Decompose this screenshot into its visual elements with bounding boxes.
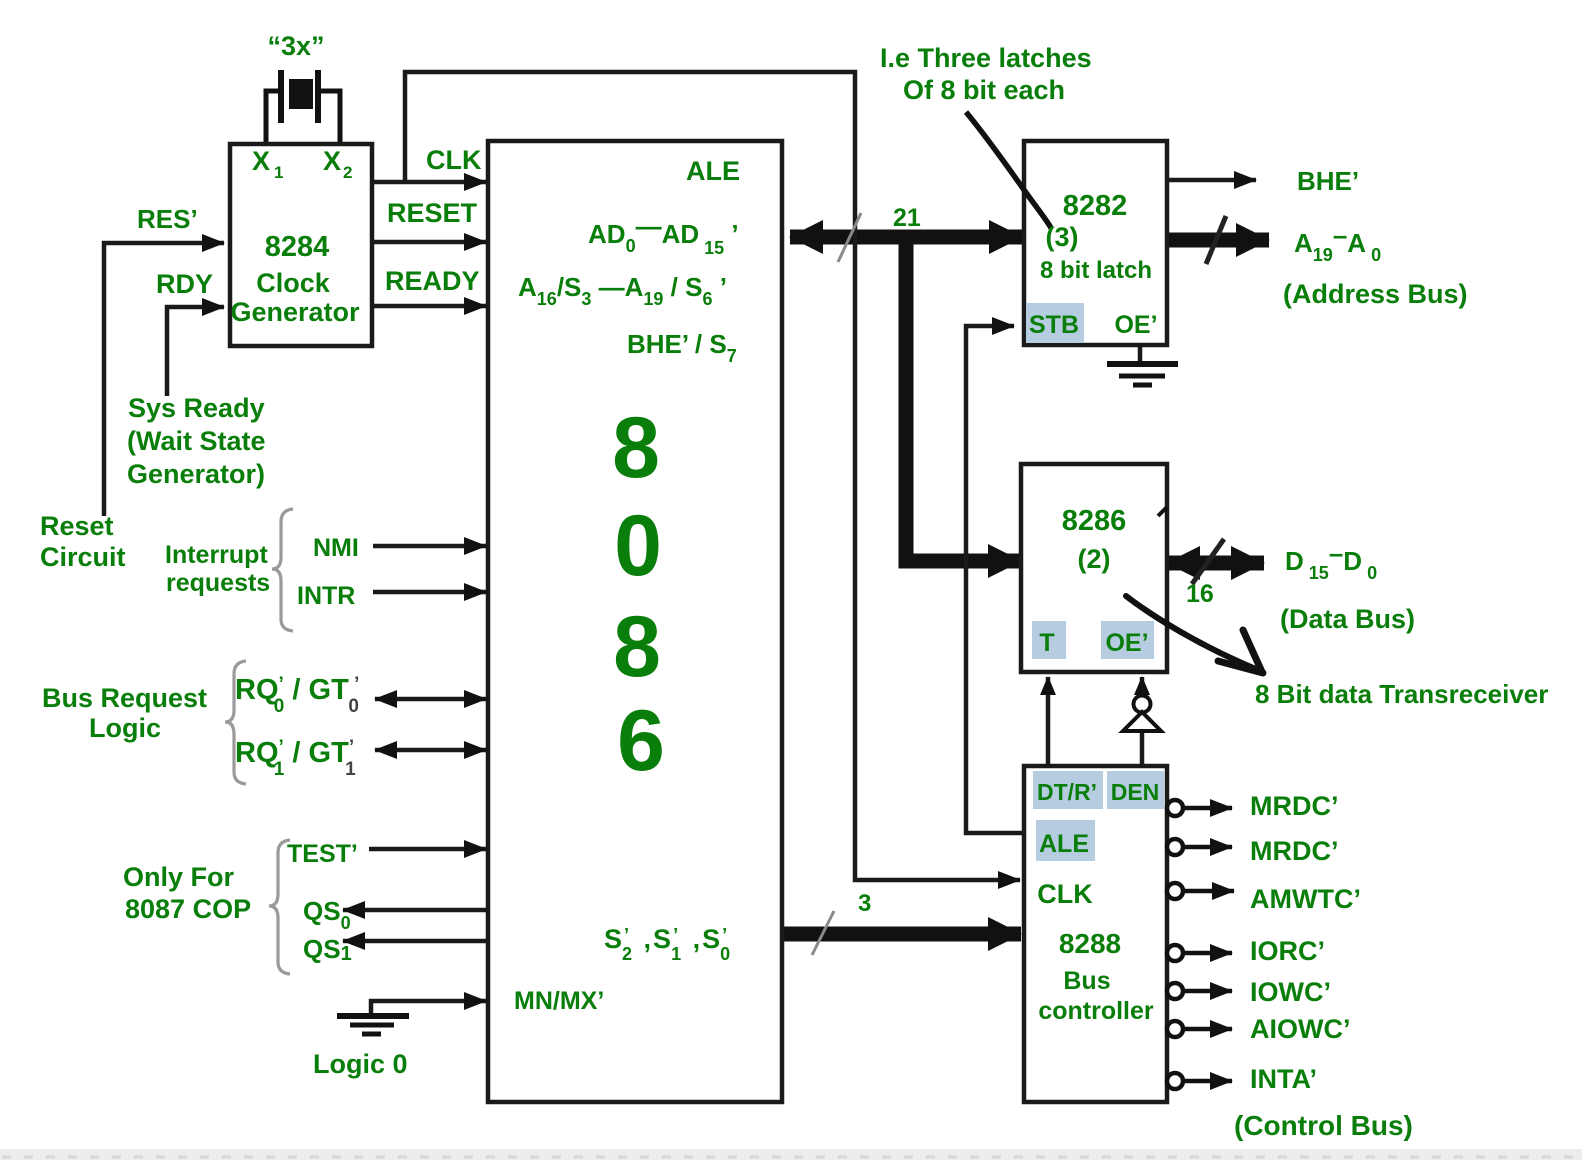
svg-text:3: 3 (858, 890, 871, 917)
svg-text:Clock: Clock (256, 268, 331, 298)
svg-text:8282: 8282 (1063, 190, 1128, 222)
svg-text:RQ’1 / GT’1: RQ’1 / GT’1 (235, 737, 356, 780)
svg-text:Of 8 bit each: Of 8 bit each (903, 75, 1065, 105)
svg-text:requests: requests (166, 569, 270, 597)
svg-text:CLK: CLK (1037, 879, 1093, 909)
svg-text:ALE: ALE (1039, 830, 1089, 858)
svg-text:X: X (252, 146, 270, 176)
svg-text:A19–A 0: A19–A 0 (1294, 220, 1381, 265)
svg-text:RES’: RES’ (137, 204, 198, 234)
svg-text:OE’: OE’ (1105, 629, 1148, 657)
svg-text:T: T (1039, 629, 1054, 657)
svg-text:DEN: DEN (1111, 779, 1160, 805)
svg-text:Sys Ready: Sys Ready (128, 393, 265, 423)
svg-text:RQ’0 / GT ’0: RQ’0 / GT ’0 (235, 674, 359, 717)
svg-text:MN/MX’: MN/MX’ (514, 987, 604, 1015)
svg-text:STB: STB (1029, 311, 1079, 339)
svg-text:(Data Bus): (Data Bus) (1280, 604, 1415, 634)
svg-text:6: 6 (617, 693, 665, 789)
svg-text:Logic 0: Logic 0 (313, 1049, 408, 1079)
svg-text:DT/R’: DT/R’ (1037, 779, 1097, 805)
svg-text:8087 COP: 8087 COP (125, 894, 251, 924)
svg-text:RDY: RDY (156, 269, 213, 299)
svg-text:AMWTC’: AMWTC’ (1250, 884, 1361, 914)
svg-text:8: 8 (612, 400, 660, 496)
svg-text:Only For: Only For (123, 862, 234, 892)
svg-text:Generator): Generator) (127, 459, 265, 489)
svg-text:“3x”: “3x” (267, 31, 324, 61)
svg-text:D 15–D 0: D 15–D 0 (1285, 538, 1377, 583)
svg-text:TEST’: TEST’ (287, 840, 358, 868)
svg-text:0: 0 (614, 498, 662, 594)
svg-text:16: 16 (1186, 580, 1214, 608)
svg-text:ALE: ALE (686, 156, 740, 186)
svg-text:INTA’: INTA’ (1250, 1064, 1317, 1094)
svg-text:Bus Request: Bus Request (42, 683, 207, 713)
svg-text:MRDC’: MRDC’ (1250, 791, 1339, 821)
svg-text:(Wait State: (Wait State (127, 426, 266, 456)
svg-text:(2): (2) (1078, 544, 1111, 574)
svg-text:(Address Bus): (Address Bus) (1283, 279, 1468, 309)
svg-text:(Control Bus): (Control Bus) (1234, 1110, 1413, 1141)
svg-text:8: 8 (613, 599, 661, 695)
svg-text:MRDC’: MRDC’ (1250, 836, 1339, 866)
svg-text:Interrupt: Interrupt (165, 541, 268, 569)
svg-text:Logic: Logic (89, 713, 161, 743)
svg-text:X: X (323, 146, 341, 176)
svg-text:Bus: Bus (1063, 967, 1110, 995)
svg-text:AIOWC’: AIOWC’ (1250, 1014, 1351, 1044)
svg-text:INTR: INTR (297, 582, 355, 610)
svg-text:Circuit: Circuit (40, 542, 126, 572)
svg-text:(3): (3) (1046, 222, 1079, 252)
svg-text:OE’: OE’ (1114, 311, 1157, 339)
svg-text:NMI: NMI (313, 534, 359, 562)
svg-text:8284: 8284 (265, 231, 330, 263)
svg-text:RESET: RESET (387, 198, 478, 228)
svg-text:8 bit latch: 8 bit latch (1040, 257, 1152, 284)
svg-text:8288: 8288 (1059, 928, 1121, 959)
svg-text:QS1: QS1 (303, 934, 352, 965)
svg-text:8 Bit data Transreceiver: 8 Bit data Transreceiver (1255, 679, 1548, 709)
svg-text:READY: READY (385, 266, 480, 296)
svg-text:BHE’: BHE’ (1297, 166, 1359, 196)
svg-text:IOWC’: IOWC’ (1250, 977, 1331, 1007)
svg-text:8286: 8286 (1062, 505, 1127, 537)
svg-text:controller: controller (1038, 997, 1154, 1025)
svg-text:IORC’: IORC’ (1250, 936, 1325, 966)
svg-text:2: 2 (343, 163, 352, 182)
svg-text:QS0: QS0 (303, 896, 351, 933)
svg-text:CLK: CLK (426, 145, 482, 175)
svg-text:I.e Three latches: I.e Three latches (880, 43, 1092, 73)
svg-text:Generator: Generator (230, 297, 360, 327)
svg-text:Reset: Reset (40, 511, 114, 541)
svg-text:21: 21 (893, 204, 921, 232)
svg-text:1: 1 (274, 163, 283, 182)
